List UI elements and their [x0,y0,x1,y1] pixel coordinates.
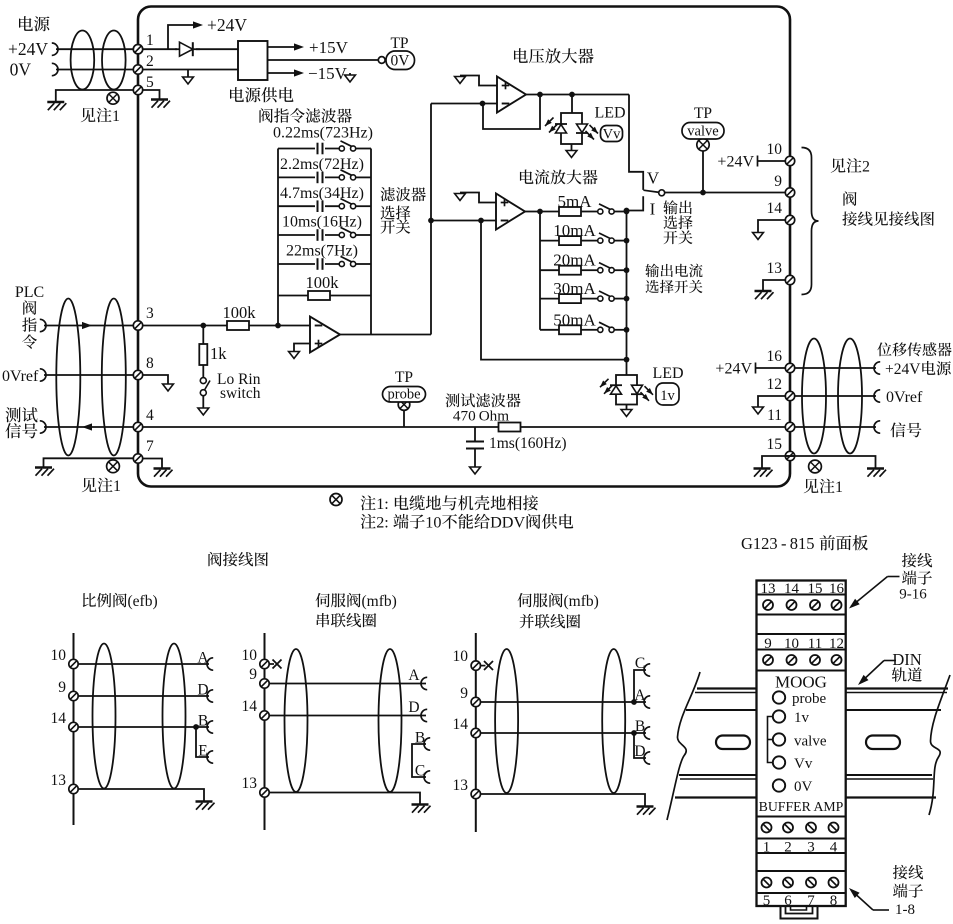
switch pole circle [659,190,665,196]
current ladder right rail [626,212,628,360]
valve1 hook E [207,751,213,763]
svg-text:C: C [635,655,645,672]
ground chassis terminal7 [154,467,171,469]
wire signal bus vertical [430,104,432,335]
cable shield ellipse PLC 1 [56,299,80,456]
svg-text:4.7ms(34Hz): 4.7ms(34Hz) [280,185,364,202]
terminal 3 [133,321,142,330]
terminal block 5-8 separator [757,892,846,894]
valve2 terminal 13 [260,788,269,797]
label 见注1 power [81,108,96,123]
label power-supply 电源 [19,16,33,31]
svg-text:B: B [635,718,645,735]
panel divider line [757,633,846,635]
terminal block 9-12 bottom line [757,670,846,672]
wire 0V testpoint line [268,59,379,61]
terminal block 13-16 separator [757,594,846,596]
valve3 hook A [644,696,650,708]
valve1 cable ellipse 2 [163,644,186,789]
valve3 terminal 14 [471,728,480,737]
signal ground U3 plus input [460,193,496,203]
terminal 13 [785,275,794,284]
front panel LED 0V [773,779,785,791]
signal ground -15V [349,73,351,75]
label 测试信号 [6,407,21,422]
label 见注2 [831,158,846,173]
valve2 cable ellipse 2 [379,649,402,792]
svg-text:PLC: PLC [15,284,44,301]
wire terminal 12 ground [758,396,785,407]
label 滤波器选择开关 [380,187,394,201]
svg-text:0Vref: 0Vref [2,368,39,385]
signal ground U1 plus input [294,344,310,352]
terminal 2 [133,65,142,74]
valve3 junction A [631,699,637,705]
junction U2 output [537,92,543,98]
svg-text:probe: probe [792,691,826,707]
filter row switch S4 [341,227,354,233]
svg-text:15: 15 [767,436,783,453]
arrow +24V branch [193,21,203,28]
label 见注1 sensor [804,479,819,494]
label 阀 接线见接线图 [843,191,856,205]
valve2 series jumper B-C [412,744,426,777]
svg-text:C: C [415,763,425,780]
terminal 14 [785,215,794,224]
connector hook 0V input [52,63,58,75]
valve3 wire A [481,701,647,703]
valve1 hook B [207,721,213,733]
wire terminal 16 to sensor [795,367,876,369]
label 输出电流选择开关 [645,264,659,278]
valve2 wire D [269,715,426,717]
terminal 5 [133,85,142,94]
svg-text:(efb): (efb) [128,593,158,610]
testpoint probe lamp [398,399,410,411]
svg-text:8: 8 [146,355,154,372]
filter ladder left rail [277,149,279,326]
svg-text:14: 14 [51,710,67,727]
switch 10mA [599,233,612,239]
panel divider line 2 [757,870,846,872]
wire terminal 14 ground [758,220,785,233]
svg-text:valve: valve [687,124,718,140]
valve2 terminal 9 [260,679,269,688]
wire TP valve [702,151,704,193]
wire 1k to switch [202,365,204,378]
junction I branch [624,208,630,214]
switch 20mA [599,263,612,269]
terminal block 5-8 screws [762,878,772,888]
wire switch to ground [202,396,204,408]
junction ladder left [275,323,281,329]
valve3 shield wire ground [481,794,646,806]
DIN rail left torn edge [667,672,700,820]
power supply unit box [238,41,268,80]
ground chassis power-left [47,101,64,103]
valve1 wire E [196,727,209,757]
pointer arrow terminals 1-8 [873,909,889,911]
svg-text:E: E [198,743,207,760]
wire pole to terminal 9 [665,192,785,194]
valve3 parallel jumper D [634,733,646,758]
wire sensor shield [762,456,876,468]
svg-text:7: 7 [146,438,154,455]
label 电压放大器 [514,48,528,63]
svg-text:9‑16: 9‑16 [899,587,927,603]
valve1 terminal 10 [69,659,78,668]
testpoint box 1v [656,383,679,405]
lamp symbol note1 power [107,92,119,104]
svg-text:−15V: −15V [308,64,348,83]
filter row capacitor C5 [278,263,341,265]
switch 30mA [599,291,612,297]
ground chassis terminal5 [151,98,168,100]
svg-text:10: 10 [51,647,67,664]
DIN rail right torn edge [929,675,950,815]
wire terminal1 to PSU [143,48,238,50]
filter row capacitor C1 [278,148,341,150]
svg-text:1v: 1v [660,388,675,404]
valve3 bus wire [475,633,477,832]
valve3 terminal 10 unused [471,661,480,670]
wire +24V branch [168,25,194,49]
wire I contact branch [627,196,644,210]
svg-text:switch: switch [220,385,261,402]
DIN rail pointer arrow [884,660,896,662]
resistor 30mA [540,298,559,300]
svg-text:2: 2 [862,159,870,176]
svg-text:D: D [634,743,645,760]
svg-text:+24V: +24V [885,361,921,378]
wire PLC input to terminal 3 [44,325,133,327]
svg-text:10ms(16Hz): 10ms(16Hz) [282,214,362,231]
svg-text:11: 11 [767,407,782,424]
front panel LED bracket [768,717,773,763]
ground chassis sensor-left [754,467,771,469]
filter row capacitor C3 [278,205,341,207]
lamp symbol note1 bottom [330,494,342,506]
svg-text:1: 1 [835,479,843,496]
terminal 7 [133,454,142,463]
testpoint box probe [383,387,426,403]
filter row switch S3 [341,199,354,205]
testpoint contact 0V [378,57,385,64]
valve3 hook B [644,727,650,739]
wire U2 minus input [431,103,497,105]
junction 20mA output [624,267,630,273]
svg-text:+24V: +24V [207,15,247,35]
wire terminal 12 sensor 0Vref [795,395,876,397]
valve3 cable ellipse 2 [602,649,625,793]
valve2 hook D [421,709,427,721]
DIN rail left section [697,687,757,689]
valve1 wire D [78,695,209,697]
junction 1k [200,323,206,329]
wire +15V output [268,46,296,48]
svg-text:DDV: DDV [490,514,525,532]
connector hook PLC input [40,319,46,331]
filter row capacitor C2 [278,176,341,178]
wire 0V input to terminal 2 [56,69,133,71]
svg-text:0V: 0V [10,60,32,80]
junction 5mA output [624,209,630,215]
front panel LED Vv [773,756,785,768]
svg-text:probe: probe [387,387,420,403]
resistor 10mA [540,240,559,242]
wire LED 1v ground [626,405,628,410]
svg-text:I: I [650,200,656,219]
valve1 cable ellipse 1 [93,644,116,789]
connector hook 0Vref [40,369,46,381]
svg-text:D: D [408,699,419,716]
connector hook sensor signal [874,421,880,433]
signal ground U2 plus input [460,76,497,86]
connector hook sensor +24V [874,362,880,374]
wire terminal5 internal ground [143,90,160,99]
terminal block 1-4 bottom line [757,852,846,854]
cable shield ellipse power 1 [71,31,95,90]
svg-text:A: A [408,667,420,684]
terminal 16 [785,363,794,372]
current ladder left rail [539,212,541,330]
svg-text:+24V: +24V [8,39,48,59]
DIN rail left slot [716,736,750,750]
junction bus U3 [428,218,434,224]
svg-text:4: 4 [146,407,154,424]
svg-text:DIN: DIN [892,650,921,669]
front panel LED valve [773,733,785,745]
svg-text:TP: TP [390,35,408,52]
svg-text:2: 2 [146,53,154,70]
wire 0Vref to terminal 8 [44,374,133,376]
op-amp U3 current amplifier [496,194,525,230]
wire U3 feedback loop [481,221,627,360]
capacitor test filter [474,427,476,442]
junction LED 1v [624,357,630,363]
switch Lo Rin [200,378,206,384]
valve2 cable ellipse 1 [285,649,308,792]
svg-text:12: 12 [767,376,783,393]
svg-text:14: 14 [242,698,258,715]
label 信号 sensor [890,422,905,437]
valve3 hook D [644,752,650,764]
valve1 terminal 9 [69,691,78,700]
wire to LED 1v [626,360,628,375]
label 电流放大器 [520,170,534,184]
resistor 1k [199,344,207,365]
svg-text:LED: LED [652,365,683,382]
svg-text:10: 10 [453,648,469,665]
label 接线端子 1-8 [893,865,908,879]
filter row switch S5 [341,256,354,262]
svg-text:10: 10 [242,647,258,664]
terminal block 13-16 screws [763,600,773,610]
valve1 hook A [207,658,213,670]
svg-text:valve: valve [794,734,827,750]
valve2 hook B [424,738,430,750]
valve2 terminal 10 unused [260,659,269,668]
svg-text:1: 1 [113,478,121,495]
svg-text:B: B [415,730,425,747]
resistor 100k feedback row [278,295,371,297]
svg-text:D: D [197,682,208,699]
op-amp U1 input amplifier [310,317,340,353]
LED 1v pair [616,375,637,405]
valve2 no-connect X [273,660,282,669]
valve2 terminal 14 [260,711,269,720]
svg-text:14: 14 [767,200,783,217]
terminal 11 [785,422,794,431]
wire test signal from terminal 4 [44,426,133,428]
ground chassis PLC-left [35,466,52,468]
valve3 wire B [481,732,647,734]
valve1 terminal 13 [69,784,78,793]
connector hook test signal [40,421,46,433]
terminal block 9-12 separator [757,649,846,651]
svg-text:16: 16 [767,348,783,365]
op-amp U2 voltage amplifier [497,77,526,113]
svg-text:(mfb): (mfb) [564,593,599,610]
wire terminal3 input line [143,325,310,327]
svg-text:V: V [647,169,660,188]
front panel LED probe [773,691,785,703]
wire U1 output [340,334,431,336]
valve3 no-connect X [484,661,493,670]
label 阀指令滤波器 [259,108,272,123]
valve1 bus wire [73,633,75,825]
valve1 terminal 14 [69,722,78,731]
valve2 bus wire [264,633,266,830]
svg-text:LED: LED [594,105,625,122]
svg-text:1:: 1: [376,495,389,513]
svg-text:(mfb): (mfb) [362,593,397,610]
wire V contact branch [629,95,643,190]
resistor 50mA [540,329,559,331]
valve3 terminal 13 [471,789,480,798]
wire to 1k resistor [202,326,204,345]
svg-text:3: 3 [146,305,154,322]
valve2 hook C [424,771,430,783]
valve2 wire A [269,683,426,685]
wire terminal 13 ground [763,280,785,291]
svg-text:1: 1 [112,108,120,125]
wire LED Vv ground [571,144,573,151]
label 伺服阀 (mfb) series [316,593,330,607]
wire +24V to terminal 10 [758,160,786,162]
switch 5mA [599,204,612,210]
LED Vv pair [561,113,582,144]
terminal 8 [133,370,142,379]
svg-text:2.2ms(72Hz): 2.2ms(72Hz) [280,156,364,173]
resistor 20mA [540,269,559,271]
label note2 [361,514,376,529]
svg-text:0.22ms(723Hz): 0.22ms(723Hz) [273,125,373,142]
valve1 hook D [207,690,213,702]
cable shield ellipse power 2 [102,31,126,90]
valve1 wire A [78,663,209,665]
ground chassis sensor-right [867,467,884,469]
label 比例阀 (efb) [83,593,96,607]
junction U2 feedback [480,101,486,107]
svg-text:13: 13 [767,260,783,277]
svg-text:1k: 1k [210,344,227,363]
svg-text:9: 9 [774,173,782,190]
svg-text:10: 10 [767,141,783,158]
wire -15V output [268,72,296,74]
svg-text:Vv: Vv [794,756,813,772]
junction 50mA output [624,327,630,333]
svg-text:2:: 2: [376,514,389,532]
label 测试滤波器 [446,393,460,407]
terminal block 1-4 separator [757,838,846,840]
label 伺服阀 (mfb) parallel [518,593,532,607]
label 输出选择开关 [663,200,677,214]
svg-text:5: 5 [146,74,154,91]
resistor 470 Ohm [499,423,521,432]
testpoint box Vv [601,126,623,142]
terminal 1 [133,45,142,54]
svg-text:0Vref: 0Vref [886,389,923,406]
svg-text:100k: 100k [306,273,340,292]
svg-text:8: 8 [830,893,838,909]
main module box outline [138,7,790,487]
wire U3 minus input [431,220,496,222]
junction TP valve [700,190,706,196]
wire U2 output [526,94,629,96]
front panel bottom tab [781,906,818,919]
wire +24V input to terminal 1 [56,48,133,50]
valve1 wire B [78,726,209,728]
label note1 [361,495,376,510]
svg-text:9: 9 [249,666,257,683]
svg-text:MOOG: MOOG [775,673,827,692]
testpoint box 0V [386,51,415,70]
filter ladder right rail [370,149,372,335]
svg-text:1ms(160Hz): 1ms(160Hz) [489,435,567,452]
junction U3 feedback [478,218,484,224]
pointer arrow terminals 9-16 [888,576,900,578]
resistor 100k input [227,321,249,330]
junction LED Vv branch [569,92,575,98]
terminal 10 [785,156,794,165]
valve3 hook C [644,664,650,676]
svg-text:G123 ‑ 815: G123 ‑ 815 [741,534,815,553]
junction 10mA output [624,238,630,244]
svg-text:13: 13 [453,777,469,794]
svg-text:13: 13 [51,772,67,789]
svg-text:A: A [197,650,209,667]
terminal block 1-4 screws [762,823,772,833]
cable shield ellipse PLC 2 [102,299,126,456]
lamp symbol note1 sensor [809,460,822,473]
svg-text:0V: 0V [794,779,813,795]
terminal block 13-16 bottom line [757,614,846,616]
svg-text:1‑8: 1‑8 [895,902,915,918]
signal ground stub on 0V line [187,70,189,78]
wire to LED Vv [571,95,573,114]
svg-text:10: 10 [425,514,441,532]
valve1 shield wire ground [78,789,204,801]
cable shield ellipse sensor 2 [838,339,862,454]
wire terminal8 internal ground [143,375,168,384]
valve1 junction B [193,724,199,730]
wire +24V to terminal 16 [756,367,786,369]
junction U3 output [537,209,543,215]
valve3 terminal 9 [471,697,480,706]
svg-text:Vv: Vv [603,127,621,143]
svg-text:5: 5 [763,893,771,909]
